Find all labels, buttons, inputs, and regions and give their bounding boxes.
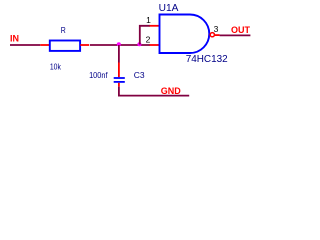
- NAND gate U1A pin 3 lead: [215, 34, 220, 36]
- wire capacitor branch vertical: [118, 45, 120, 63]
- svg-text:C3: C3: [134, 70, 145, 80]
- wire branch to gate pin 1: [140, 26, 150, 45]
- wire main net segment: [90, 44, 150, 46]
- wire net GND: [119, 87, 189, 96]
- svg-text:100nf: 100nf: [89, 70, 108, 80]
- svg-text:10k: 10k: [50, 62, 62, 71]
- svg-text:1: 1: [146, 15, 151, 25]
- NAND gate U1A pin 1 lead: [150, 25, 160, 27]
- capacitor C3 top plate: [114, 77, 125, 79]
- NAND gate U1A pin 2 lead: [150, 44, 160, 46]
- NAND gate U1A body: [160, 15, 210, 54]
- wire net IN: [10, 44, 40, 46]
- svg-text:74HC132: 74HC132: [186, 54, 228, 65]
- resistor R body: [50, 41, 80, 51]
- resistor R pin 1 lead: [40, 44, 49, 46]
- wire net OUT: [220, 34, 251, 36]
- junction at gate input branch: [137, 42, 141, 46]
- svg-text:GND: GND: [161, 86, 182, 96]
- capacitor C3 pin 2 lead: [118, 83, 120, 87]
- junction at capacitor branch: [117, 42, 121, 46]
- resistor R pin 2 lead: [80, 44, 89, 46]
- output inversion bubble: [210, 33, 214, 37]
- svg-text:2: 2: [146, 34, 151, 44]
- capacitor C3 pin 1 lead: [118, 63, 120, 78]
- svg-text:3: 3: [214, 24, 219, 34]
- svg-text:OUT: OUT: [231, 25, 251, 35]
- capacitor C3 bottom plate: [114, 81, 125, 83]
- svg-text:U1A: U1A: [159, 3, 179, 14]
- svg-text:R: R: [61, 25, 66, 35]
- svg-text:IN: IN: [10, 34, 19, 44]
